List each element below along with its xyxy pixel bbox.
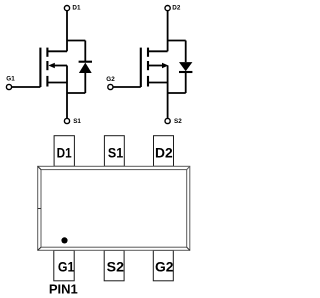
svg-text:G2: G2 [106,76,115,83]
svg-text:D1: D1 [57,145,72,161]
svg-text:S1: S1 [108,145,123,161]
svg-text:D2: D2 [155,145,173,161]
svg-text:S2: S2 [174,118,182,125]
svg-text:G1: G1 [6,76,15,83]
svg-text:S2: S2 [107,259,125,275]
svg-text:G1: G1 [58,258,75,274]
svg-text:G2: G2 [155,259,174,275]
svg-text:D2: D2 [172,5,181,12]
svg-text:D1: D1 [72,5,81,12]
svg-text:PIN1: PIN1 [49,282,78,297]
svg-text:S1: S1 [73,118,81,125]
